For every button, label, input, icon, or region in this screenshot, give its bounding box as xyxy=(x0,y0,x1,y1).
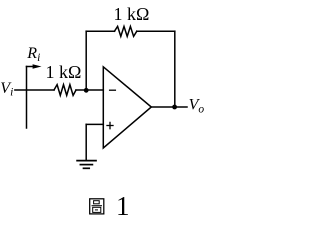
wire non-inverting input horizontal xyxy=(86,123,103,125)
wire from resistor R1 to op-amp inverting input xyxy=(76,89,103,91)
svg-text:1: 1 xyxy=(116,191,130,221)
wire feedback top right horizontal xyxy=(137,30,175,32)
wire output horizontal xyxy=(151,106,187,108)
arrow Ri input-resistance arrow xyxy=(27,64,42,68)
ground symbol xyxy=(77,161,96,169)
svg-text:Vo: Vo xyxy=(189,97,205,116)
wire feedback right vertical xyxy=(174,31,176,107)
resistor R1 1 kOhm input xyxy=(54,85,76,96)
node A junction dot inverting input xyxy=(84,88,89,93)
wire input horizontal from Vi to resistor R1 xyxy=(15,89,54,91)
resistor R2 1 kOhm feedback xyxy=(115,26,137,36)
pin plus non-inverting input symbol xyxy=(107,122,113,128)
node B output junction dot xyxy=(172,105,177,110)
pin minus inverting input symbol xyxy=(110,89,116,91)
svg-text:Vi: Vi xyxy=(0,80,13,99)
wire ground vertical xyxy=(85,124,87,160)
wire feedback left vertical xyxy=(85,31,87,90)
svg-text:1 kΩ: 1 kΩ xyxy=(114,4,150,24)
svg-text:Ri: Ri xyxy=(26,45,40,64)
svg-text:1 kΩ: 1 kΩ xyxy=(46,62,82,82)
wire feedback top left horizontal xyxy=(86,30,114,32)
op-amp U1 triangle xyxy=(103,67,151,148)
wire input port vertical stub at Vi node xyxy=(26,67,28,129)
caption figure character Tu (CJK) xyxy=(90,199,104,214)
